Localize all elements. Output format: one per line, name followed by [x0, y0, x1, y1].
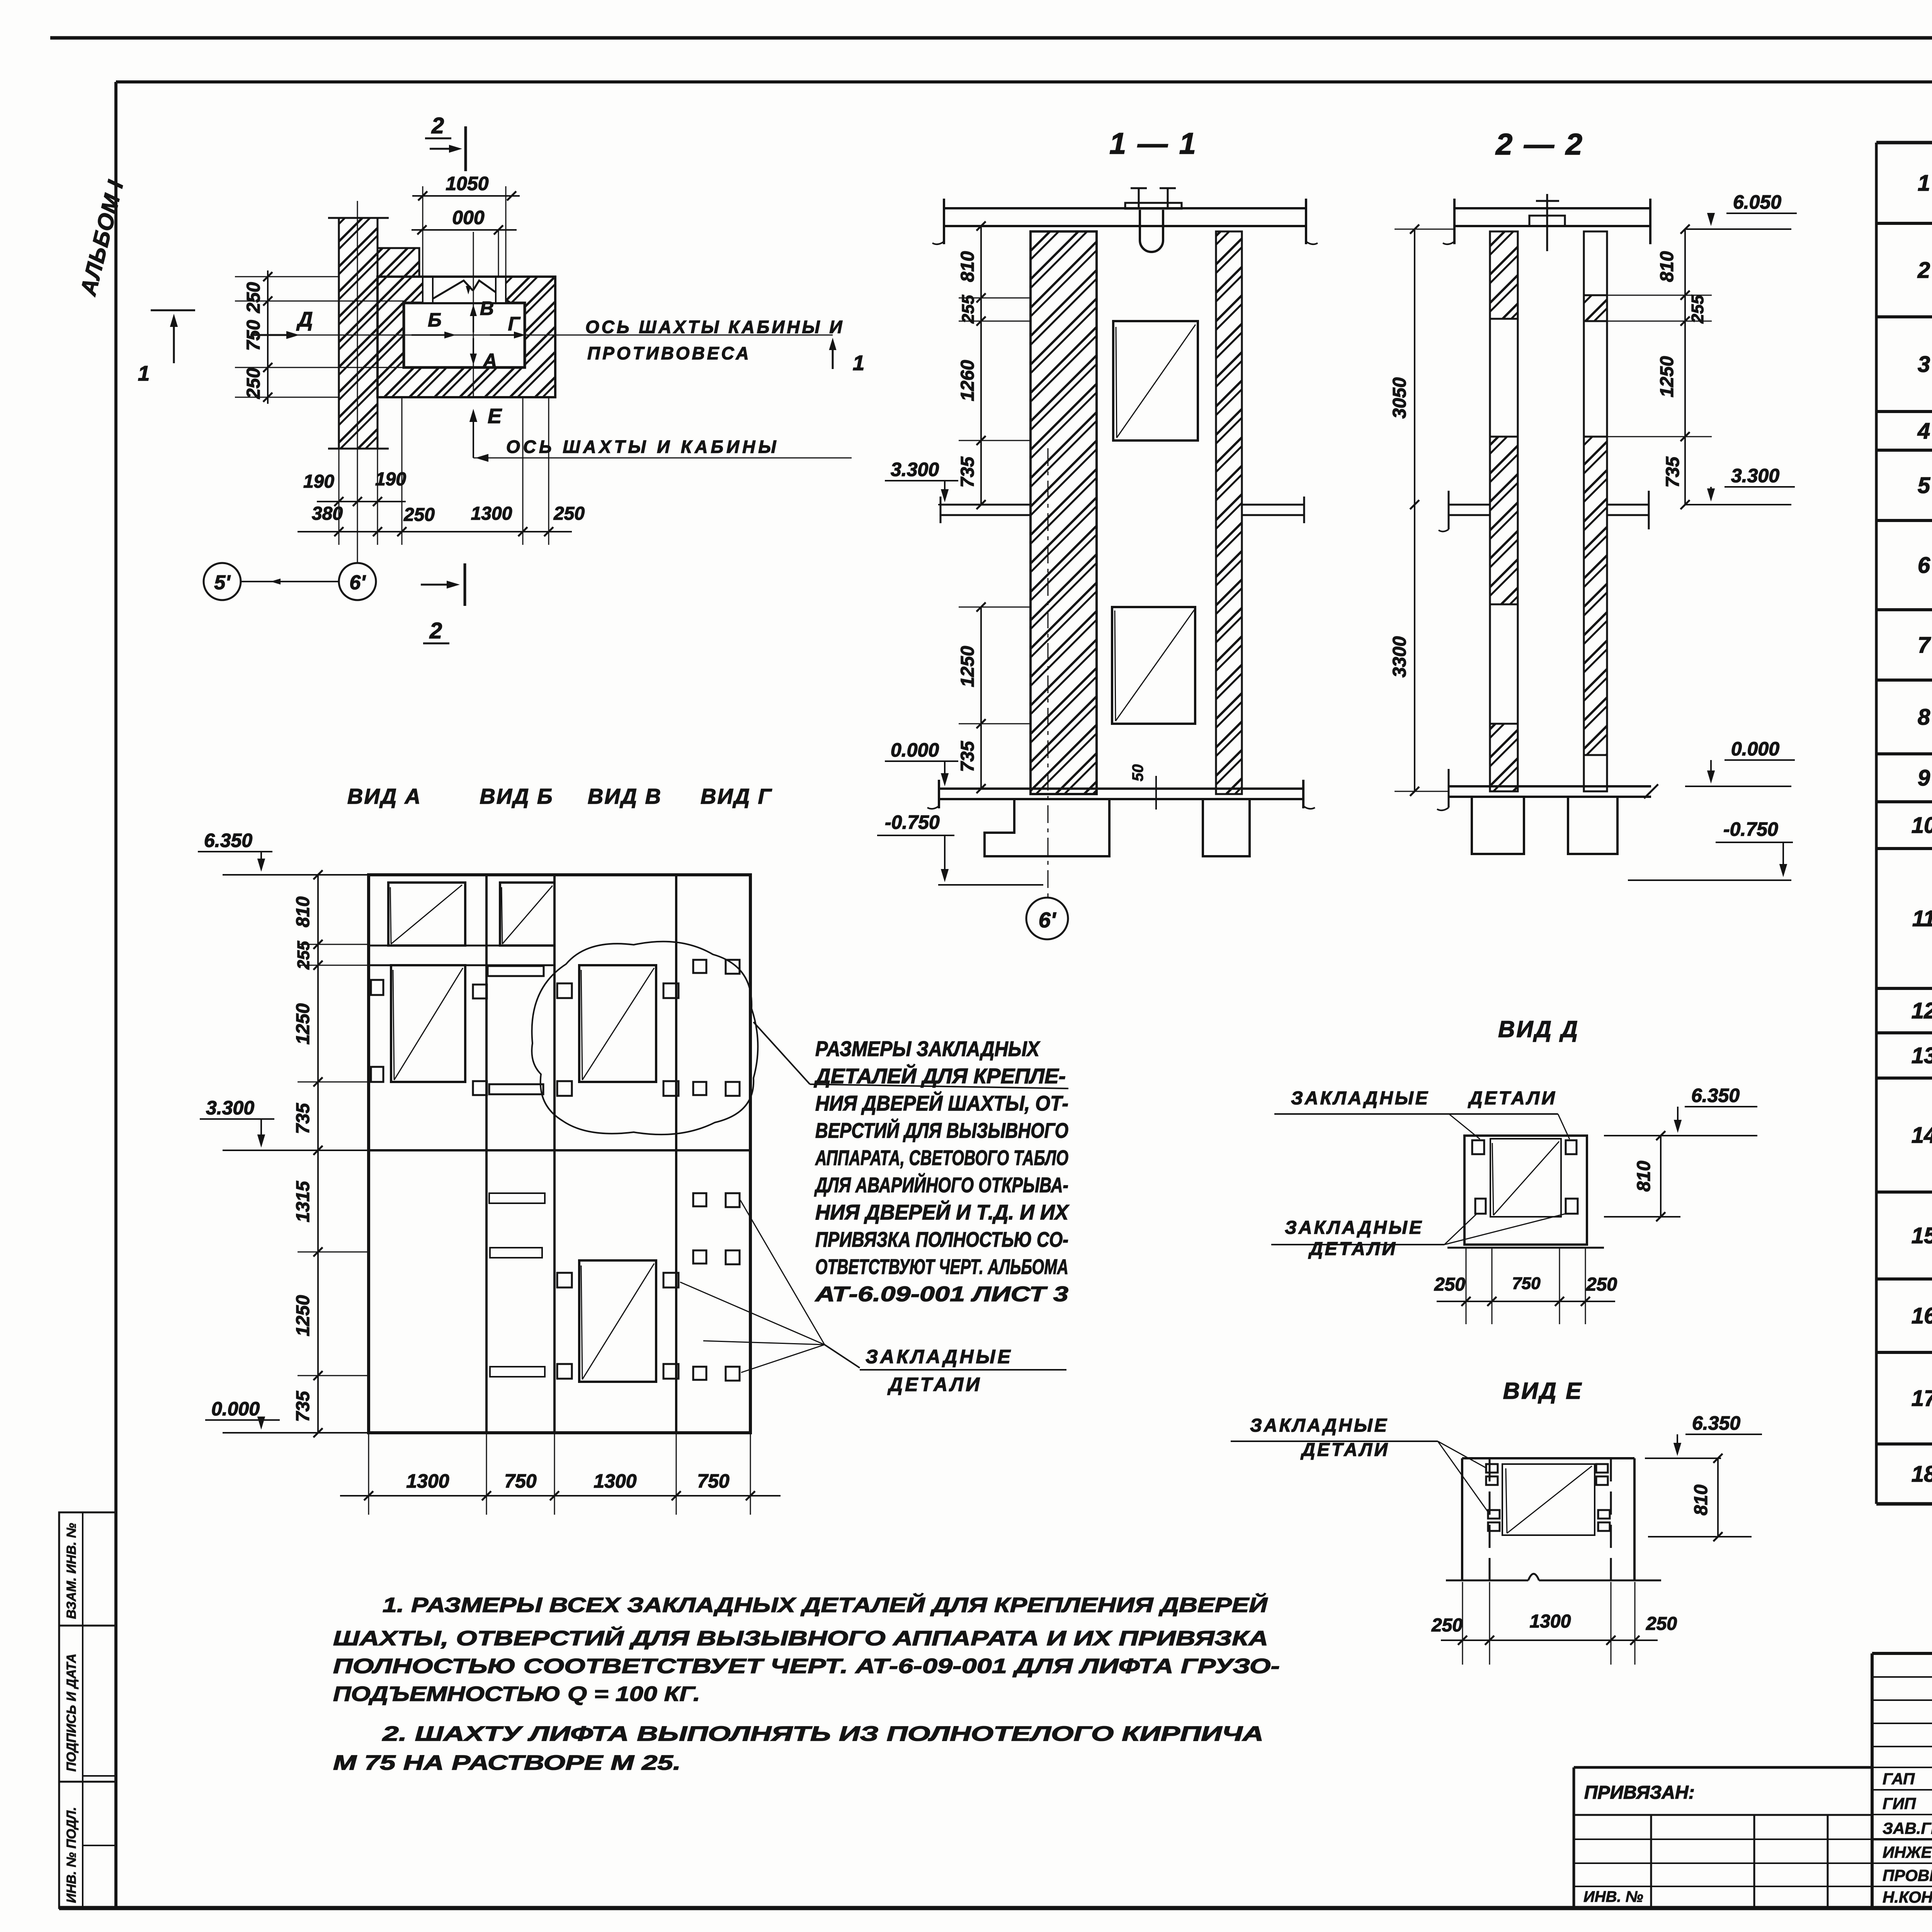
svg-text:ГИП: ГИП	[1883, 1794, 1916, 1813]
svg-text:1300: 1300	[471, 503, 512, 524]
svg-text:255: 255	[294, 941, 313, 970]
section 1-1 foundation left	[985, 799, 1109, 856]
view G embed square rows	[693, 960, 706, 973]
svg-text:Н.КОНТР.: Н.КОНТР.	[1883, 1888, 1932, 1906]
view V upper door	[579, 965, 656, 1082]
plan door jamb right	[496, 277, 506, 303]
svg-text:0.000: 0.000	[1731, 738, 1779, 760]
svg-text:М 75 НА РАСТВОРЕ М 25.: М 75 НА РАСТВОРЕ М 25.	[333, 1751, 681, 1774]
title block outer	[1872, 1652, 1932, 1655]
svg-text:ОТВЕТСТВУЮТ ЧЕРТ. АЛЬБОМА: ОТВЕТСТВУЮТ ЧЕРТ. АЛЬБОМА	[815, 1255, 1068, 1279]
svg-text:5': 5'	[214, 571, 231, 594]
svg-text:1250: 1250	[1657, 356, 1677, 397]
view E dashed jambs	[1489, 1458, 1491, 1580]
views column divider V-G	[675, 875, 677, 1433]
svg-text:6.050: 6.050	[1733, 191, 1781, 213]
view E bottom dims 250 1300 250	[1462, 1582, 1463, 1665]
svg-text:ДЕТАЛИ: ДЕТАЛИ	[1468, 1088, 1557, 1109]
svg-text:750: 750	[1512, 1274, 1541, 1293]
grid bubble link line	[241, 581, 339, 582]
section mark 2 bottom	[421, 584, 453, 586]
svg-text:1300: 1300	[594, 1470, 636, 1492]
section 1-1 mid slab right	[1242, 504, 1304, 506]
plan axis horizontal shaft cabin counterweight	[277, 335, 833, 336]
svg-text:ВИД Б: ВИД Б	[480, 784, 553, 808]
dim 000	[412, 229, 517, 231]
svg-text:Б: Б	[428, 309, 441, 331]
section 1-1 mid slab left	[940, 504, 1031, 506]
svg-text:3300: 3300	[1389, 636, 1410, 677]
plan bottom dims 380 250 1300 250	[401, 397, 403, 545]
view E ground line with break	[1446, 1580, 1528, 1582]
svg-text:1: 1	[1918, 171, 1930, 196]
svg-text:16: 16	[1912, 1303, 1932, 1328]
svg-text:2: 2	[429, 618, 442, 643]
section 1-1 dim chain lower 1250 735	[980, 607, 982, 789]
svg-text:ИНВ. № ПОДЛ.: ИНВ. № ПОДЛ.	[64, 1807, 79, 1903]
svg-text:ЗАКЛАДНЫЕ: ЗАКЛАДНЫЕ	[1291, 1088, 1430, 1109]
svg-text:ПОЛНОСТЬЮ СООТВЕТСТВУЕТ ЧЕ: ПОЛНОСТЬЮ СООТВЕТСТВУЕТ ЧЕРТ. АТ-6-09-00…	[333, 1655, 1280, 1678]
svg-text:735: 735	[957, 741, 978, 772]
svg-text:11: 11	[1912, 906, 1932, 931]
svg-text:НИЯ ДВЕРЕЙ ШАХТЫ, ОТ-: НИЯ ДВЕРЕЙ ШАХТЫ, ОТ-	[815, 1091, 1068, 1115]
section 1-1 roof u-bolt	[1125, 203, 1182, 209]
plan left dim chain 250 750 250	[267, 270, 269, 404]
svg-text:000: 000	[452, 207, 485, 228]
svg-text:ПРОВЕР.: ПРОВЕР.	[1883, 1866, 1932, 1884]
svg-text:750: 750	[504, 1470, 537, 1492]
section 2-2 right wall	[1584, 231, 1607, 791]
view E box	[1461, 1458, 1463, 1580]
svg-text:-0.750: -0.750	[885, 811, 940, 833]
view E door	[1502, 1464, 1595, 1535]
svg-text:735: 735	[1663, 456, 1683, 488]
svg-text:6.350: 6.350	[204, 830, 252, 851]
view E dim 810	[1717, 1458, 1719, 1537]
embeds leader lines	[740, 1200, 825, 1345]
svg-text:255: 255	[959, 295, 978, 324]
svg-text:18: 18	[1912, 1462, 1932, 1487]
svg-text:1315: 1315	[293, 1180, 313, 1222]
svg-text:250: 250	[553, 503, 585, 524]
view B upper door	[500, 883, 554, 946]
view D box	[1464, 1136, 1587, 1245]
view V lower door	[579, 1260, 656, 1382]
svg-text:1050: 1050	[446, 173, 488, 194]
svg-text:ДЕТАЛИ: ДЕТАЛИ	[887, 1374, 982, 1395]
svg-text:ВИД Г: ВИД Г	[701, 784, 772, 808]
title block mid thick line	[1872, 1838, 1932, 1840]
section 1-1 foundation right	[1203, 799, 1250, 856]
svg-text:2: 2	[1917, 258, 1930, 283]
svg-text:9: 9	[1918, 765, 1930, 791]
svg-text:ИНВ. №: ИНВ. №	[1583, 1888, 1643, 1905]
svg-text:15: 15	[1912, 1223, 1932, 1248]
svg-text:735: 735	[293, 1391, 313, 1422]
svg-text:380: 380	[312, 503, 343, 524]
svg-text:5: 5	[1918, 473, 1930, 498]
plan shaft top face line	[378, 276, 555, 278]
svg-text:13: 13	[1912, 1043, 1932, 1068]
svg-text:ПРИВЯЗАН:: ПРИВЯЗАН:	[1584, 1782, 1695, 1803]
svg-text:ДЛЯ АВАРИЙНОГО ОТКРЫВА-: ДЛЯ АВАРИЙНОГО ОТКРЫВА-	[814, 1173, 1068, 1197]
svg-text:В: В	[480, 298, 494, 319]
view A upper door	[388, 883, 465, 946]
svg-text:1250: 1250	[293, 1295, 313, 1336]
svg-text:250: 250	[403, 505, 435, 525]
view B slots upper	[473, 985, 487, 998]
view V upper door embeds	[557, 983, 572, 998]
svg-text:3.300: 3.300	[206, 1097, 254, 1119]
svg-text:6: 6	[1918, 553, 1930, 578]
svg-text:ДЕТАЛИ: ДЕТАЛИ	[1300, 1440, 1389, 1460]
svg-text:АТ-6.09-001 ЛИСТ 3: АТ-6.09-001 ЛИСТ 3	[814, 1282, 1068, 1306]
section mark 1 right	[832, 345, 834, 369]
svg-text:1. РАЗМЕРЫ ВСЕХ ЗАКЛАДНЫХ: 1. РАЗМЕРЫ ВСЕХ ЗАКЛАДНЫХ ДЕТАЛЕЙ ДЛЯ КР…	[383, 1593, 1268, 1617]
svg-text:А: А	[482, 350, 497, 371]
views mid floor line	[369, 1149, 750, 1151]
svg-text:1260: 1260	[957, 360, 978, 401]
svg-text:250: 250	[243, 368, 264, 399]
svg-text:810: 810	[957, 251, 978, 282]
section 2-2 left dim 3050 3300	[1414, 229, 1415, 791]
section 1-1 right wall hatched	[1216, 231, 1242, 794]
view D door	[1490, 1139, 1561, 1217]
svg-text:250: 250	[243, 282, 264, 313]
privyazan block	[1574, 1766, 1872, 1769]
section 1-1 bottom slab	[938, 787, 1304, 790]
svg-text:810: 810	[1634, 1161, 1654, 1192]
table grid	[1876, 141, 1932, 145]
svg-text:ПРОТИВОВЕСА: ПРОТИВОВЕСА	[587, 343, 751, 363]
stamp column boxes	[59, 1512, 116, 1626]
svg-text:6': 6'	[349, 571, 366, 594]
svg-text:ПОДЪЕМНОСТЬЮ Q = 100 КГ.: ПОДЪЕМНОСТЬЮ Q = 100 КГ.	[333, 1682, 700, 1706]
drawing frame	[116, 80, 1932, 83]
svg-text:-0.750: -0.750	[1723, 818, 1778, 840]
section 2-2 foundation right	[1568, 797, 1617, 854]
svg-text:ВЕРСТИЙ ДЛЯ ВЫЗЫВНОГО: ВЕРСТИЙ ДЛЯ ВЫЗЫВНОГО	[815, 1118, 1068, 1143]
title block names rows	[1872, 1767, 1932, 1768]
plan door opening with cross	[423, 277, 506, 303]
svg-text:3: 3	[1918, 352, 1930, 377]
svg-text:Е: Е	[488, 405, 502, 428]
svg-text:ВИД Е: ВИД Е	[1503, 1378, 1583, 1404]
sheet outer top edge	[50, 36, 1932, 40]
grid bubble 6'	[339, 563, 376, 600]
section 2-2 mid slab right stub	[1607, 504, 1649, 506]
svg-text:10: 10	[1912, 813, 1932, 838]
svg-text:ЗАКЛАДНЫЕ: ЗАКЛАДНЫЕ	[1250, 1415, 1389, 1436]
section 2-2 mid slab left stub	[1449, 504, 1490, 506]
svg-text:1300: 1300	[406, 1470, 449, 1492]
section 2-2 bottom slab	[1449, 785, 1651, 787]
view D dim 810	[1660, 1136, 1662, 1217]
views outer rectangle	[369, 875, 750, 1433]
svg-text:1 — 1: 1 — 1	[1109, 126, 1197, 160]
title block small grid lines	[1872, 1676, 1932, 1678]
svg-text:250: 250	[1434, 1274, 1465, 1295]
svg-text:ШАХТЫ, ОТВЕРСТИЙ ДЛЯ ВЫЗЫ: ШАХТЫ, ОТВЕРСТИЙ ДЛЯ ВЫЗЫВНОГО АППАРАТА …	[333, 1626, 1268, 1650]
svg-text:1300: 1300	[1530, 1611, 1571, 1632]
svg-text:1: 1	[138, 361, 150, 385]
svg-text:7: 7	[1918, 633, 1931, 658]
svg-text:250: 250	[1646, 1614, 1677, 1634]
section 1-1 lower door	[1112, 607, 1195, 724]
svg-text:17: 17	[1912, 1386, 1932, 1411]
plan axis vertical cabin	[473, 232, 474, 397]
section mark 1 left	[151, 310, 195, 311]
view D ground line	[1447, 1247, 1604, 1249]
section 2-2 foundation left	[1472, 797, 1524, 854]
view B slots lower	[489, 1193, 545, 1203]
view A embed squares	[371, 980, 383, 995]
svg-text:6.350: 6.350	[1691, 1085, 1740, 1106]
svg-text:810: 810	[293, 896, 313, 927]
views slab band lines	[369, 945, 554, 947]
plan cabin opening	[404, 303, 525, 367]
svg-text:6': 6'	[1039, 908, 1056, 932]
svg-text:810: 810	[1691, 1485, 1711, 1515]
views column divider A-B	[485, 875, 488, 1433]
svg-text:1: 1	[853, 351, 865, 375]
svg-text:ГАП: ГАП	[1883, 1770, 1915, 1788]
section 1-1 upper door	[1113, 321, 1198, 440]
view D embed brackets	[1472, 1140, 1484, 1154]
svg-text:4: 4	[1917, 418, 1930, 444]
section 1-1 top slab	[943, 207, 1307, 209]
grid bubble 5'	[204, 563, 241, 600]
svg-text:250: 250	[1431, 1615, 1463, 1636]
dim 1050 top	[422, 186, 423, 277]
svg-text:ОСЬ ШАХТЫ И КАБИНЫ: ОСЬ ШАХТЫ И КАБИНЫ	[506, 437, 779, 457]
svg-text:12: 12	[1912, 998, 1932, 1024]
svg-text:ПОДПИСЬ И ДАТА: ПОДПИСЬ И ДАТА	[64, 1653, 79, 1772]
svg-text:8: 8	[1918, 705, 1930, 730]
svg-text:14: 14	[1912, 1123, 1932, 1148]
plan wall bottom cap	[328, 448, 389, 450]
plan wall top cap	[328, 217, 389, 219]
views bottom dims 1300 750 1300 750	[368, 1433, 369, 1515]
svg-text:ДЕТАЛИ: ДЕТАЛИ	[1308, 1239, 1397, 1259]
section 2-2 top slab	[1454, 207, 1651, 209]
svg-text:735: 735	[957, 456, 978, 488]
svg-text:ВИД В: ВИД В	[588, 784, 662, 808]
section 2-2 right dim 810 255 1250 735	[1684, 229, 1686, 505]
svg-text:Г: Г	[508, 313, 521, 335]
svg-text:ВЗАМ. ИНВ. №: ВЗАМ. ИНВ. №	[64, 1523, 79, 1619]
svg-text:6.350: 6.350	[1692, 1412, 1740, 1434]
svg-text:ВИД Д: ВИД Д	[1498, 1016, 1579, 1042]
plan shaft walls hatched	[378, 277, 555, 397]
svg-text:ИНЖЕН.: ИНЖЕН.	[1883, 1843, 1932, 1861]
svg-text:ОСЬ ШАХТЫ КАБИНЫ И: ОСЬ ШАХТЫ КАБИНЫ И	[585, 317, 844, 337]
plan door jamb left	[423, 277, 433, 303]
svg-text:50: 50	[1129, 764, 1146, 782]
svg-text:ПРИВЯЗКА ПОЛНОСТЬЮ СО-: ПРИВЯЗКА ПОЛНОСТЬЮ СО-	[815, 1228, 1068, 1252]
views left dim chain	[317, 875, 319, 1433]
svg-text:1250: 1250	[293, 1003, 313, 1044]
section 2-2 left wall	[1490, 231, 1518, 791]
view E embed brackets	[1486, 1464, 1498, 1473]
svg-text:АППАРАТА, СВЕТОВОГО ТАБЛО: АППАРАТА, СВЕТОВОГО ТАБЛО	[815, 1146, 1068, 1170]
svg-text:Д: Д	[296, 308, 313, 331]
axis line shaft and cabin	[473, 457, 852, 459]
plan wall strip hatched	[339, 218, 378, 449]
svg-text:2: 2	[431, 113, 444, 138]
svg-text:250: 250	[1586, 1274, 1617, 1295]
revision cloud around view V door	[532, 942, 758, 1134]
section 1-1 dim chain upper 810 255 1260 735	[980, 226, 982, 505]
section 1-1 axis bubble 6'	[1048, 448, 1049, 898]
svg-text:ЗАВ.ГР.: ЗАВ.ГР.	[1883, 1819, 1932, 1837]
section 2-2 roof bolt	[1546, 194, 1548, 251]
cloud leader line	[753, 1022, 810, 1084]
svg-text:3.300: 3.300	[891, 459, 939, 480]
svg-text:3.300: 3.300	[1731, 465, 1779, 486]
view A lower door	[391, 965, 465, 1082]
svg-text:2 — 2: 2 — 2	[1495, 127, 1584, 161]
svg-text:НИЯ ДВЕРЕЙ И Т.Д. И ИХ: НИЯ ДВЕРЕЙ И Т.Д. И ИХ	[815, 1200, 1070, 1224]
svg-text:735: 735	[293, 1103, 313, 1134]
views column divider B-V	[553, 875, 556, 1433]
svg-text:255: 255	[1688, 295, 1707, 324]
svg-text:ВИД А: ВИД А	[347, 784, 422, 808]
svg-text:2. ШАХТУ ЛИФТА ВЫПОЛНЯТЬ: 2. ШАХТУ ЛИФТА ВЫПОЛНЯТЬ ИЗ ПОЛНОТЕЛОГО …	[382, 1722, 1264, 1745]
svg-text:750: 750	[697, 1470, 730, 1492]
plan bottom dims 190 190	[338, 449, 340, 545]
plan shaft wall bump	[378, 248, 419, 277]
svg-text:0.000: 0.000	[211, 1398, 260, 1420]
svg-text:0.000: 0.000	[891, 739, 939, 761]
svg-text:ЗАКЛАДНЫЕ: ЗАКЛАДНЫЕ	[866, 1346, 1013, 1367]
svg-text:ЗАКЛАДНЫЕ: ЗАКЛАДНЫЕ	[1285, 1218, 1423, 1238]
section 1-1 left wall hatched	[1031, 231, 1097, 794]
plan axis vertical 6'	[357, 201, 358, 563]
svg-text:810: 810	[1657, 251, 1677, 282]
svg-text:190: 190	[303, 471, 334, 492]
svg-text:РАЗМЕРЫ ЗАКЛАДНЫХ: РАЗМЕРЫ ЗАКЛАДНЫХ	[815, 1037, 1041, 1061]
view D bottom dims 250 750 250	[1466, 1248, 1467, 1324]
svg-text:1250: 1250	[957, 646, 978, 687]
svg-text:3050: 3050	[1389, 377, 1410, 418]
view V lower door embeds	[557, 1273, 572, 1287]
